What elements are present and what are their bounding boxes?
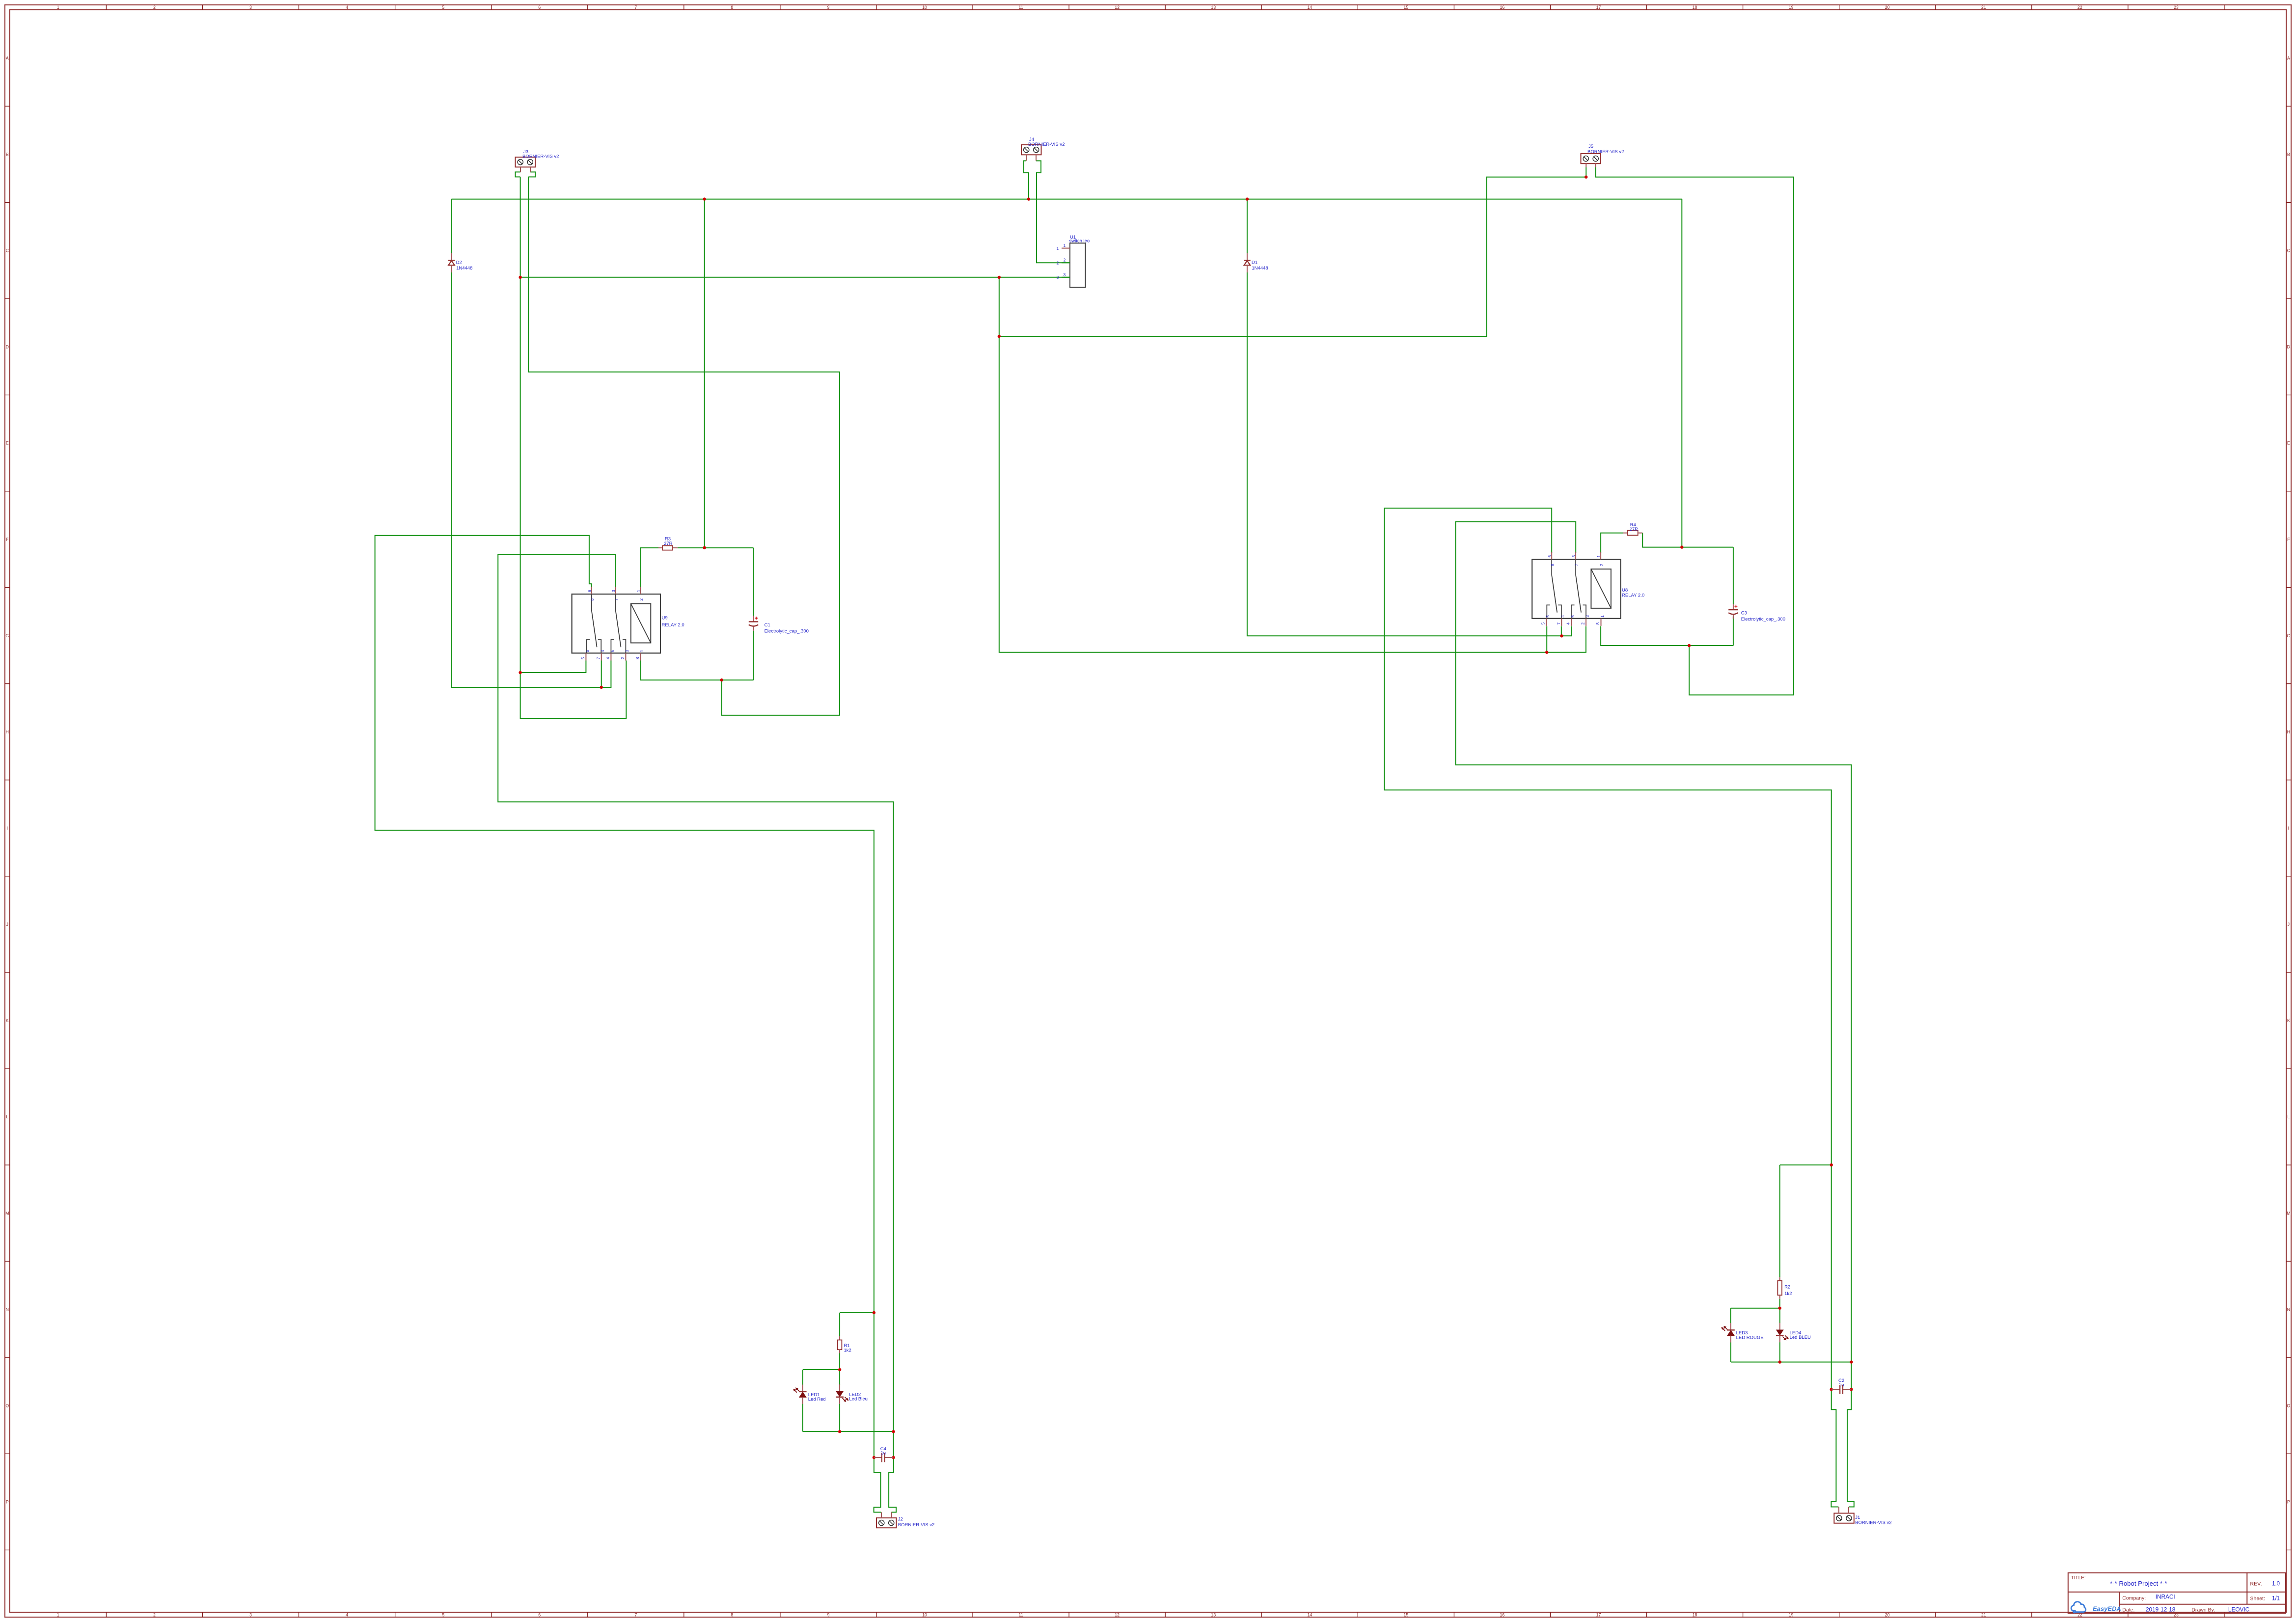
svg-text:*-* Robot Project *-*: *-* Robot Project *-* [2110,1580,2167,1587]
LED LED4 Led BLEU [1779,1323,1780,1330]
wire: right vertical from top wire to R4 output junction [1681,199,1682,547]
svg-text:L: L [6,1114,8,1119]
wire: J3 plug collar right [528,172,535,177]
svg-text:4: 4 [1566,622,1571,625]
svg-text:RELAY 2.0: RELAY 2.0 [662,622,684,628]
svg-text:EasyEDA: EasyEDA [2093,1605,2121,1613]
wire: right rail LED bottom junction to C4 right [893,1432,894,1458]
svg-text:12: 12 [1115,5,1120,10]
LED LED2 Led Bleu [839,1384,840,1391]
svg-text:6: 6 [587,590,592,592]
wire: U9 pin5 branch [520,661,586,673]
junction LED rail right [892,1430,895,1433]
wire: J5 area horizontal to U1-net vertical [999,177,1586,336]
svg-text:3: 3 [1585,615,1590,618]
svg-text:O: O [5,1403,9,1408]
svg-text:2: 2 [1057,261,1059,266]
wire: J5 left pin stub [1585,167,1586,177]
LED LED3 LED ROUGE [1730,1323,1731,1330]
junction C4 left [873,1456,875,1459]
wire: vertical from top wire to R3 output junction [704,199,705,548]
wire: J3 left pin vertical down, to U9 pin5 and pin2 [520,177,627,719]
svg-text:6: 6 [1547,555,1552,558]
junction U8 pin5 [1545,651,1548,654]
svg-text:22: 22 [2077,5,2082,10]
svg-text:12: 12 [1115,1612,1120,1617]
svg-text:2: 2 [639,598,644,601]
wire: U9 pin7 lead down to junction [601,661,602,688]
frame column ticks [106,5,107,10]
junction U1 pin3 net / J3 left [519,276,521,279]
resistor R4 27R [1623,533,1627,534]
wire: U8 pin8 bottom to C3 bottom [1601,626,1733,646]
svg-text:17: 17 [1596,1612,1601,1617]
connector J2 BORNIER-VIS v2 [876,1518,897,1528]
junction R2 top [1830,1163,1833,1166]
svg-text:5: 5 [585,650,590,652]
relay U8 RELAY 2.0 [1532,560,1620,619]
wire: J2 plug collar right [889,1458,896,1513]
junction J5 pin1 [1585,175,1587,178]
resistor R3 27R [658,547,662,548]
U1 pin 2 lead [1062,262,1070,263]
svg-text:G: G [5,633,9,638]
svg-text:Electrolytic_cap_.300: Electrolytic_cap_.300 [1741,617,1785,622]
svg-text:8: 8 [731,1612,733,1617]
U9 bottom pins [585,653,586,660]
U9 top pins [591,587,592,595]
wire: C3 vertical top segment [1733,547,1734,604]
svg-text:TITLE:: TITLE: [2071,1575,2086,1581]
svg-text:8: 8 [1595,622,1600,625]
junction U9 pin5 [519,671,521,674]
U1 pin 3 lead [1062,277,1070,278]
svg-text:C1: C1 [765,622,770,628]
wire: LED2 top lead [839,1370,840,1385]
svg-text:H: H [6,730,9,734]
wire: J1 plug collar right [1847,1389,1854,1507]
LED1 arrows [796,1388,799,1392]
U8 bottom pins [1546,619,1547,626]
svg-text:13: 13 [1211,1612,1216,1617]
LED4 arrows [1782,1337,1786,1340]
svg-text:19: 19 [1789,5,1794,10]
svg-text:5: 5 [442,5,444,10]
svg-text:2019-12-18: 2019-12-18 [2146,1606,2176,1613]
svg-text:K: K [2287,1018,2290,1023]
junction top wire / J4 pin1 [1027,197,1030,200]
wire: right LED bottom horizontal [1731,1362,1851,1363]
svg-text:7: 7 [1556,622,1561,625]
svg-text:6: 6 [1570,615,1575,618]
capacitor C2 leads [1831,1389,1840,1390]
svg-text:18: 18 [1693,1612,1697,1617]
svg-text:13: 13 [1211,5,1216,10]
svg-text:19: 19 [1789,1612,1794,1617]
wire: R1 top lead [839,1313,840,1336]
wire: U9 pin1 top to R3 left [641,548,658,587]
wire: LED1 top lead [802,1370,803,1385]
capacitor C2 1u [1839,1385,1840,1394]
svg-text:14: 14 [1307,5,1312,10]
svg-text:L: L [2287,1114,2290,1119]
diode D1 1N4448 [1247,253,1248,261]
svg-text:J: J [2288,922,2290,927]
svg-text:Date:: Date: [2122,1607,2134,1613]
svg-text:P: P [6,1500,9,1505]
wire: J3 right pin long meander to C1 bottom node [528,177,840,715]
svg-text:Led Bleu: Led Bleu [849,1397,868,1402]
svg-text:4: 4 [600,650,605,652]
svg-text:7: 7 [596,657,601,659]
svg-text:15: 15 [1403,1612,1408,1617]
junction R1 bottom / LEDs [838,1368,841,1371]
svg-text:M: M [5,1211,9,1216]
junction top wire / R3 net [703,197,706,200]
wire: R1 bottom to LED junction [839,1353,840,1370]
svg-text:9: 9 [827,5,829,10]
svg-text:J1: J1 [1855,1515,1860,1520]
connector J1 BORNIER-VIS v2 [1834,1513,1854,1523]
wire: U9 pin8 bottom to C1 bottom [641,661,754,680]
svg-text:P: P [2287,1500,2290,1505]
wire: J4 left pin to top wire [1024,161,1029,199]
junction U1 pin3 net / J5 branch [998,276,1001,279]
wire: U8 pin7 lead down to junction [1561,626,1562,636]
svg-text:Company:: Company: [2122,1595,2146,1601]
wire: U9 pin7-top(3) up-left-down loop to LED group right rail [498,555,893,1432]
svg-text:7: 7 [634,5,637,10]
wire: U8 pin3-top(3) loop to right LED right rail [1456,522,1852,1390]
capacitor C3 Electrolytic_cap_.300 [1733,604,1734,610]
wire: LED3 top lead [1730,1308,1731,1324]
svg-text:5: 5 [1545,615,1550,618]
junction top wire / D1 [1246,197,1249,200]
svg-text:C3: C3 [1741,611,1747,616]
wire: J3 plug collar left [516,172,520,177]
svg-text:R2: R2 [1784,1284,1790,1290]
svg-text:RELAY 2.0: RELAY 2.0 [1622,593,1644,598]
svg-text:D: D [2287,345,2290,350]
svg-text:10: 10 [922,5,927,10]
junction R2 bottom / LEDs [1778,1307,1781,1310]
svg-text:16: 16 [1500,5,1505,10]
svg-text:3: 3 [1064,272,1066,277]
svg-text:Drawn By:: Drawn By: [2191,1607,2215,1613]
svg-text:E: E [6,441,9,446]
svg-text:9: 9 [827,1612,829,1617]
svg-text:1k2: 1k2 [1784,1291,1792,1297]
svg-text:8: 8 [1550,564,1555,566]
wire: right LED top horizontal [1731,1308,1780,1309]
svg-text:1: 1 [639,650,644,652]
capacitor C4 leads [874,1457,882,1458]
svg-text:6: 6 [538,5,541,10]
wire: LED top horizontal [803,1369,840,1370]
wire: U8 pin1 top to R4 left [1601,533,1623,553]
svg-text:D: D [6,345,9,350]
svg-text:1N4448: 1N4448 [1252,266,1268,271]
wire: R2 top lead [1779,1165,1780,1277]
svg-text:2: 2 [1599,564,1604,566]
svg-text:15: 15 [1403,5,1408,10]
svg-text:switch leo: switch leo [1069,239,1090,244]
wire: LED4 bottom lead [1779,1342,1780,1362]
resistor R2 1k2 [1779,1277,1780,1281]
svg-text:J5: J5 [1588,144,1593,149]
svg-text:6: 6 [538,1612,541,1617]
svg-text:4: 4 [346,5,348,10]
wire: LED2 bottom lead [839,1404,840,1432]
svg-text:3: 3 [1571,555,1576,558]
junction C3 bottom net [1688,644,1691,647]
svg-text:8: 8 [590,598,595,601]
svg-text:1: 1 [1064,243,1066,248]
junction LED4 cathode [1778,1360,1781,1363]
svg-text:H: H [2287,730,2290,734]
wire: J2 plug collar left [874,1458,881,1513]
LED LED1 Led Red [802,1385,803,1392]
svg-text:BORNIER-VIS v2: BORNIER-VIS v2 [898,1522,934,1528]
svg-text:1N4448: 1N4448 [456,266,472,271]
wire: D2 branch from top wire down to relay U9 pins 7/4 [451,199,452,253]
svg-text:REV:: REV: [2250,1581,2262,1587]
wire: U1 pin3 net vertical to lower horizontal [999,277,1586,652]
svg-text:N: N [2287,1307,2290,1312]
junction R4 output [1680,545,1683,548]
svg-text:1/1: 1/1 [2272,1596,2280,1602]
wire: LED bottom horizontal [803,1431,894,1432]
svg-text:B: B [6,152,9,157]
svg-text:J: J [6,922,8,927]
svg-text:27R: 27R [1630,527,1639,532]
wire: left rail continues through LED bottom crossing to C4 left [874,1313,875,1458]
wire: R4 right to junction and C3 top [1642,533,1733,547]
svg-text:2: 2 [620,657,625,659]
U8 contact posts [1547,605,1550,618]
svg-text:Electrolytic_cap_.300: Electrolytic_cap_.300 [765,629,809,634]
svg-text:U9: U9 [662,616,668,621]
wire: LED4 top lead [1779,1308,1780,1324]
wire: R2 bottom to LED junction [1779,1299,1780,1308]
relay U9 RELAY 2.0 [572,594,660,653]
wire: C1 vertical (bottom segment) [753,631,754,680]
junction C4 right [892,1456,895,1459]
svg-text:3: 3 [249,1612,252,1617]
wire: R1 branch horizontal [840,1312,874,1313]
svg-text:21: 21 [1981,5,1986,10]
svg-text:11: 11 [1018,1612,1023,1617]
junction LED rail right R [1850,1360,1853,1363]
svg-text:1: 1 [1057,246,1059,251]
LED3 arrows [1724,1326,1727,1330]
junction R3 output [703,546,706,549]
svg-text:BORNIER-VIS v2: BORNIER-VIS v2 [1028,142,1065,147]
junction C1 bottom net [720,678,723,681]
svg-text:LED ROUGE: LED ROUGE [1736,1335,1764,1340]
svg-text:K: K [6,1018,9,1023]
svg-text:BORNIER-VIS v2: BORNIER-VIS v2 [1855,1520,1891,1525]
wire: R2 branch horizontal [1780,1164,1831,1165]
svg-text:D2: D2 [456,260,462,266]
capacitor C1 Electrolytic_cap_.300 [753,616,754,622]
svg-text:5: 5 [442,1612,444,1617]
svg-text:18: 18 [1693,5,1697,10]
connector J4 BORNIER-VIS v2 [1021,145,1041,155]
svg-text:11: 11 [1018,5,1023,10]
svg-text:3: 3 [611,590,616,592]
wire: U9 pin8-top(6) up-left-down loop to LED group left rail [375,536,874,1313]
wire: J4 right pin to U1 pin2 [1036,161,1070,263]
svg-text:20: 20 [1885,1612,1890,1617]
svg-text:Sheet:: Sheet: [2250,1596,2265,1602]
U1 pin 1 (unconnected) [1062,248,1070,249]
resistor R1 1k2 [839,1336,840,1340]
svg-text:5: 5 [580,657,585,659]
svg-text:D1: D1 [1252,260,1257,266]
svg-text:4: 4 [1560,615,1565,618]
connector J5 BORNIER-VIS v2 [1581,154,1601,163]
svg-text:1u: 1u [881,1451,886,1456]
svg-text:A: A [6,55,9,60]
svg-text:BORNIER-VIS v2: BORNIER-VIS v2 [522,154,559,159]
svg-text:4: 4 [605,657,610,659]
U8 contact arms [1552,560,1557,613]
svg-text:8: 8 [731,5,733,10]
svg-text:O: O [2287,1403,2290,1408]
svg-text:LEOVIC: LEOVIC [2228,1606,2250,1613]
svg-text:3: 3 [625,650,629,652]
wire: LED3 bottom lead [1730,1342,1731,1362]
svg-text:1: 1 [1596,555,1601,558]
svg-text:1: 1 [636,590,641,592]
svg-text:N: N [6,1307,9,1312]
svg-text:3: 3 [1057,275,1059,280]
junction C2 left [1830,1388,1833,1391]
svg-text:BORNIER-VIS v2: BORNIER-VIS v2 [1587,149,1624,155]
svg-text:G: G [2287,633,2290,638]
frame row ticks [5,106,10,107]
svg-text:1: 1 [57,5,59,10]
junction U8 pin7 [1560,634,1563,637]
svg-text:B: B [2287,152,2290,157]
junction C2 right [1850,1388,1853,1391]
wire: top long horizontal net [452,199,1682,200]
svg-text:1: 1 [57,1612,59,1617]
svg-text:6: 6 [610,650,615,652]
U8 top pins [1551,552,1552,560]
svg-text:I: I [2288,826,2289,831]
svg-text:7: 7 [634,1612,637,1617]
svg-text:16: 16 [1500,1612,1505,1617]
connector J3 BORNIER-VIS v2 [516,157,536,167]
svg-text:27R: 27R [664,541,673,546]
svg-text:J2: J2 [898,1516,903,1522]
wire: J5 right pin long loop to C3 bottom node [1596,167,1794,695]
svg-text:I: I [7,826,8,831]
svg-text:1: 1 [1600,615,1605,618]
wire: U1 pin3 long horizontal to J3 left vertical [520,277,1070,278]
U9 contact posts [587,640,590,653]
svg-text:INRACI: INRACI [2156,1594,2175,1600]
svg-text:1k2: 1k2 [844,1348,851,1353]
wire: C3 vertical bottom segment [1733,617,1734,646]
svg-text:20: 20 [1885,5,1890,10]
U9 coil [631,604,651,643]
svg-text:Led Red: Led Red [808,1397,826,1402]
wire: R3 right to junction and C1 top [678,547,754,548]
svg-text:A: A [2287,55,2290,60]
wire: J1 plug collar left [1831,1389,1838,1507]
svg-text:4: 4 [346,1612,348,1617]
wire: LED1 bottom lead [802,1404,803,1432]
svg-text:2: 2 [153,5,156,10]
svg-text:14: 14 [1307,1612,1312,1617]
svg-text:2: 2 [1581,622,1585,625]
junction J5-left horizontal [998,335,1001,338]
svg-text:Led BLEU: Led BLEU [1790,1335,1811,1340]
svg-text:10: 10 [922,1612,927,1617]
capacitor C4 1u [881,1453,882,1462]
svg-text:E: E [2287,441,2290,446]
junction R1 top [873,1311,875,1314]
diode D2 1N4448 [451,253,452,261]
wire: D1 branch from top wire down to relay U8 pins 7/4 [1247,199,1248,253]
svg-text:C: C [6,248,9,253]
svg-text:17: 17 [1596,5,1601,10]
svg-text:M: M [2287,1211,2290,1216]
svg-text:23: 23 [2174,5,2179,10]
svg-text:5: 5 [1541,622,1546,625]
svg-text:8: 8 [635,657,640,659]
wire: U8 pin6-top(6) loop to right LED left rail [1384,508,1831,1389]
junction LED2 cathode [838,1430,841,1433]
EasyEDA logo [2071,1602,2086,1613]
U9 contact arms [592,594,597,647]
svg-text:C: C [2287,248,2291,253]
svg-text:3: 3 [249,5,252,10]
svg-text:F: F [2287,537,2290,542]
U8 coil [1591,569,1611,608]
wire: C1 vertical (top segment) [753,548,754,616]
svg-text:2: 2 [1064,258,1066,263]
svg-text:1u: 1u [1839,1382,1844,1388]
svg-text:F: F [6,537,9,542]
svg-text:21: 21 [1981,1612,1986,1617]
junction U9 pin7 [600,686,603,689]
wire: U8 pin5 stub to junction [1546,626,1547,652]
svg-text:7: 7 [1574,564,1579,566]
LED2 arrows [843,1398,846,1402]
svg-text:2: 2 [153,1612,156,1617]
svg-text:1.0: 1.0 [2272,1581,2280,1587]
svg-text:7: 7 [614,598,619,601]
U1 switch leo [1070,243,1086,287]
title block [2068,1573,2286,1613]
